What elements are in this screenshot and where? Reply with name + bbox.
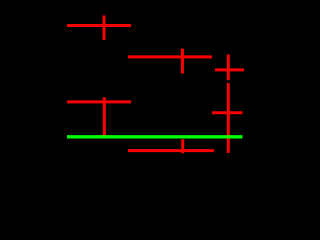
data point P5 y-error bar (lower part hidden by green line) — [103, 97, 106, 137]
data point P4 x-error bar — [212, 111, 243, 114]
data point P5 x-error bar — [67, 100, 131, 103]
data point P1 x-error bar — [67, 24, 131, 27]
data point P6 x-error bar — [128, 149, 214, 152]
data point P2 y-error bar — [181, 49, 184, 74]
data point P2 x-error bar — [128, 55, 212, 58]
data point P3 y-error bar — [227, 55, 230, 81]
green fit line (drawn on top, clipped near right edge) — [67, 135, 243, 138]
data point P1 y-error bar — [103, 16, 106, 40]
data point P4 y-error bar (green line passes over it) — [227, 83, 230, 153]
data point P3 x-error bar (clipped at right edge) — [215, 68, 246, 71]
data point P6 y-error bar — [181, 139, 184, 153]
